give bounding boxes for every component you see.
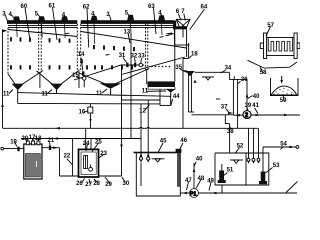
pump P1 xyxy=(190,189,199,198)
leader 48 xyxy=(196,180,201,189)
nozzle valve tick 2 xyxy=(134,63,136,67)
leader 4b xyxy=(64,16,67,19)
leader 13 xyxy=(128,33,130,43)
overflow pipe 36 xyxy=(237,79,239,128)
svg-text:37: 37 xyxy=(221,104,228,110)
svg-text:14: 14 xyxy=(78,52,85,58)
divider valve tick 14 xyxy=(82,71,84,76)
drop arrow on pipe 16 xyxy=(89,119,91,123)
hopper divider drop 3 xyxy=(146,70,148,84)
sludge pile xyxy=(271,86,297,95)
pipe35 inlet triangle xyxy=(186,71,195,76)
submersible pump 51 xyxy=(218,164,226,183)
leader 62 xyxy=(87,9,89,48)
leader 60 xyxy=(25,8,30,40)
leader 26 xyxy=(82,179,85,183)
leader 4d xyxy=(160,14,163,18)
svg-text:40: 40 xyxy=(253,94,260,100)
leader 27 xyxy=(89,179,90,184)
long recycle line L1 xyxy=(3,126,259,129)
divider wall 2 (double dashed) xyxy=(76,24,78,71)
inlet line xyxy=(4,148,24,150)
dryer left plate xyxy=(264,33,267,59)
svg-text:16: 16 xyxy=(79,110,86,116)
box17 top fitting 2 xyxy=(32,141,35,145)
manifold stub down at first hopper xyxy=(17,93,19,104)
branch into tank34 xyxy=(183,70,187,72)
svg-text:24: 24 xyxy=(83,141,90,147)
box23 feed pipe 2 xyxy=(90,139,92,150)
leader 53 xyxy=(266,168,273,174)
suction arrow into tank45 xyxy=(182,192,187,195)
bottom transfer line xyxy=(60,175,122,177)
downcomer pipe 35 (double) xyxy=(188,73,190,113)
svg-text:35: 35 xyxy=(175,65,182,71)
svg-text:57: 57 xyxy=(267,23,274,29)
box23 feed pipe 1 xyxy=(85,128,87,149)
mount trapezoid 4 xyxy=(91,16,98,21)
box 17 outer xyxy=(24,144,42,179)
mount trapezoid 6 xyxy=(158,15,165,20)
sludge bin 59 xyxy=(271,78,299,96)
ripple dash on water line xyxy=(66,32,70,34)
svg-text:31: 31 xyxy=(119,53,126,59)
tank63 right wall xyxy=(186,29,188,45)
leader 11b xyxy=(48,90,53,94)
tank52 bottom stub to P1 line xyxy=(221,185,223,193)
dryer right plate xyxy=(294,33,297,59)
svg-text:36: 36 xyxy=(241,77,248,83)
box23 inner wall xyxy=(81,152,96,175)
pipe from tank63 down (double) xyxy=(186,45,188,57)
svg-text:52: 52 xyxy=(237,143,244,149)
leader 46 xyxy=(180,143,183,149)
electrode dash row lower xyxy=(11,65,132,69)
leader 40r xyxy=(248,96,253,99)
leader 11c xyxy=(102,89,107,93)
leader 30 xyxy=(122,177,126,183)
svg-text:38: 38 xyxy=(227,129,234,135)
mount trapezoid 5 xyxy=(127,15,134,21)
leader 32 xyxy=(134,58,137,63)
tank52 water level xyxy=(230,159,243,161)
leader 45 xyxy=(158,143,163,153)
leader 15 xyxy=(77,77,83,78)
divider wall 1 (double dashed) xyxy=(38,24,40,73)
leader 4a xyxy=(12,15,16,19)
box23 small circle xyxy=(89,167,93,171)
main block right wall xyxy=(174,24,176,82)
svg-text:25: 25 xyxy=(95,139,102,145)
svg-text:39: 39 xyxy=(245,103,252,109)
inclined line right part xyxy=(122,57,186,75)
hopper V3 xyxy=(79,69,150,87)
riser up arrow 40 xyxy=(246,93,249,98)
leader 64 xyxy=(190,9,205,30)
svg-text:30: 30 xyxy=(123,181,130,187)
leader 44 xyxy=(171,99,173,105)
floor slab under bar xyxy=(148,87,175,89)
leader 20 xyxy=(26,139,28,142)
hopper divider drop 1 xyxy=(39,73,41,89)
tank34 bottom outlet drop xyxy=(225,115,229,124)
sludge manifold line B xyxy=(18,102,160,105)
svg-text:47: 47 xyxy=(185,178,192,184)
leader 24 xyxy=(86,144,88,151)
riser up arrow xyxy=(1,103,4,107)
sludge cone valve 4 xyxy=(166,89,175,92)
svg-text:23: 23 xyxy=(100,151,107,157)
svg-text:51: 51 xyxy=(227,168,234,174)
svg-text:46: 46 xyxy=(180,138,187,144)
divider wall 3 (double dashed) xyxy=(145,24,147,70)
leader 14 xyxy=(81,58,83,71)
leader 58 xyxy=(260,67,263,74)
fitting tick marks xyxy=(27,139,29,141)
svg-text:34: 34 xyxy=(225,66,232,72)
long inclined scraper line xyxy=(74,65,122,80)
leader 28 xyxy=(94,179,98,183)
leader 21 xyxy=(49,143,52,146)
mount trapezoid 3 xyxy=(61,16,68,20)
leader 33 xyxy=(140,58,143,63)
L1 left flow arrow xyxy=(55,127,61,130)
dryer serpentine xyxy=(268,38,292,52)
dosing drops into tank52 xyxy=(247,128,260,163)
scum transfer arrow xyxy=(167,33,175,35)
box 23 outer xyxy=(79,149,99,177)
leader 25 xyxy=(92,143,99,152)
pump2 discharge line right xyxy=(251,114,300,116)
launder line 1 xyxy=(8,24,77,26)
leader 63 xyxy=(154,8,157,34)
valve 16 body xyxy=(88,107,93,113)
leader 36 xyxy=(238,81,240,83)
dosing drop 2 xyxy=(147,100,149,156)
svg-text:28: 28 xyxy=(93,181,100,187)
P1 discharge line right xyxy=(198,192,297,194)
tank34 water level xyxy=(202,76,214,78)
down arrow on dosing pipe xyxy=(120,145,123,149)
discharge arrow 2 xyxy=(284,114,289,117)
top cover bar unit2 xyxy=(81,20,174,24)
small dash inside tank34 xyxy=(216,98,220,100)
tank45 top thick edge xyxy=(134,152,182,154)
nozzle end circle xyxy=(139,63,142,66)
tank63 roof bar xyxy=(173,26,187,29)
svg-text:11: 11 xyxy=(42,91,49,97)
discharge chute 58 xyxy=(248,60,298,68)
outlet arrow xyxy=(53,146,58,149)
line54 end circle xyxy=(296,146,299,149)
svg-text:19: 19 xyxy=(10,139,17,145)
mount trapezoid 2 xyxy=(38,16,45,20)
svg-text:53: 53 xyxy=(273,163,280,169)
mount stems into tank xyxy=(17,24,163,44)
pump2 riser xyxy=(246,79,248,110)
leader 52 xyxy=(235,148,240,154)
top cover bar xyxy=(7,20,77,24)
leader 11a xyxy=(9,90,13,94)
drop1 dip pipe xyxy=(140,163,142,186)
tank45 walls xyxy=(136,153,180,196)
svg-text:63: 63 xyxy=(148,4,155,10)
dryer left nub xyxy=(260,43,263,49)
sludge bar bottom of right section xyxy=(148,81,176,87)
leader 57 xyxy=(266,27,271,37)
overflow top line xyxy=(238,78,247,80)
nozzle line 31-33 assembly xyxy=(122,64,145,66)
manifold upper branch xyxy=(122,99,161,101)
leader 38 xyxy=(230,127,231,130)
svg-text:20: 20 xyxy=(22,136,29,142)
svg-text:54: 54 xyxy=(280,142,287,148)
svg-text:15: 15 xyxy=(72,73,79,79)
electrode dash row upper xyxy=(11,37,134,51)
outlet arrow 37 inside tank xyxy=(228,112,233,115)
leader 59 xyxy=(283,94,284,102)
tank34 walls xyxy=(191,72,233,115)
sludge cone valve 1 xyxy=(12,84,24,91)
leader 16 xyxy=(84,111,88,113)
treated water line 54 xyxy=(262,147,264,172)
svg-text:18: 18 xyxy=(35,136,42,142)
leader 34 xyxy=(221,70,226,73)
svg-text:44: 44 xyxy=(173,94,180,100)
svg-text:64: 64 xyxy=(201,5,208,11)
submersible pump 53 xyxy=(259,172,267,185)
divider nozzle circle 15 xyxy=(82,77,86,81)
svg-text:21: 21 xyxy=(48,138,55,144)
raw inlet circle xyxy=(1,147,4,150)
svg-text:22: 22 xyxy=(64,154,71,160)
sloped water line 13 xyxy=(9,30,78,37)
leader 11d xyxy=(147,90,166,92)
pump2 suction line xyxy=(233,114,243,116)
svg-text:18: 18 xyxy=(191,51,198,57)
sludge cone valve 3 (wide) xyxy=(100,83,122,89)
leader 17 xyxy=(31,139,34,142)
dryer body frame xyxy=(267,38,294,56)
leader 6 xyxy=(178,14,181,21)
P1 riser xyxy=(193,163,195,189)
tank34 rim step xyxy=(230,73,238,80)
tank45 water level xyxy=(152,158,165,160)
leader 40b xyxy=(194,162,196,168)
svg-text:48: 48 xyxy=(198,176,205,182)
valve 16 drop pipe xyxy=(90,104,92,129)
svg-text:11: 11 xyxy=(142,88,149,94)
hopper V2 xyxy=(37,70,80,88)
leader 51 xyxy=(223,173,228,177)
leader 18t xyxy=(189,56,192,59)
leader 7 xyxy=(184,14,186,21)
leader 39 xyxy=(246,108,248,111)
tank left wall dashed xyxy=(7,28,9,74)
dosing vertical pipe x121.5 xyxy=(121,65,123,176)
diffuser pipe 46 xyxy=(177,153,180,187)
leader 18b xyxy=(38,139,40,142)
drain pipe to tank52 top xyxy=(229,124,231,153)
leader 49 xyxy=(209,182,211,191)
box17 top fitting 3 xyxy=(37,141,40,145)
box23 inner unit xyxy=(84,156,88,169)
leader 47 xyxy=(187,182,189,191)
tank52 box xyxy=(215,153,269,185)
roof step connector xyxy=(173,21,176,30)
discharge arrow 1 xyxy=(256,114,261,117)
svg-text:61: 61 xyxy=(49,4,56,10)
P1 suction line xyxy=(180,192,189,194)
svg-text:13: 13 xyxy=(124,30,131,36)
bottom right diagonal xyxy=(286,182,298,193)
drop arrow into bin xyxy=(281,76,283,81)
sludge manifold line A (sloped) xyxy=(18,93,171,97)
L2 left flow arrow xyxy=(53,137,59,140)
svg-text:58: 58 xyxy=(260,70,267,76)
pipe35 droplet xyxy=(194,80,197,83)
hopper divider drop 2 xyxy=(78,71,80,88)
mount trapezoid 1 xyxy=(13,16,20,20)
rim fitting tick xyxy=(233,76,235,79)
riser pipe far left xyxy=(2,31,4,128)
leader 41 xyxy=(255,108,258,114)
leader 22 xyxy=(67,159,72,165)
leader 23 xyxy=(99,154,105,158)
ripple dashes in right section xyxy=(160,36,164,39)
diffuser cap xyxy=(176,149,182,153)
svg-text:33: 33 xyxy=(138,54,145,60)
leader 5b xyxy=(128,14,131,18)
leader 37 xyxy=(226,109,229,113)
svg-text:P1: P1 xyxy=(190,191,197,197)
leader 35 xyxy=(180,69,187,72)
line54 flow arrow xyxy=(290,146,295,149)
pipe 22 from dosing line down xyxy=(72,139,74,177)
leader 61 xyxy=(53,8,58,41)
svg-text:11: 11 xyxy=(96,91,103,97)
box17 top fitting 1 xyxy=(26,141,29,145)
riser inlet arrow into tank xyxy=(2,29,8,32)
svg-text:11: 11 xyxy=(3,91,10,97)
extra dash mid xyxy=(106,54,110,56)
outlet valve tick 21 xyxy=(49,145,51,150)
hopper V1 xyxy=(8,71,43,88)
suction arrow xyxy=(235,114,240,117)
dosing pipe riser x131 xyxy=(130,34,132,139)
leader 5a xyxy=(38,15,41,19)
box17 outlet line xyxy=(42,147,60,149)
svg-text:40: 40 xyxy=(196,157,203,163)
svg-text:49: 49 xyxy=(207,178,214,184)
elbow to riser xyxy=(160,104,171,106)
launder line 2 xyxy=(8,27,77,29)
svg-text:27: 27 xyxy=(85,182,92,188)
svg-text:62: 62 xyxy=(83,4,90,10)
leader 29 xyxy=(105,177,110,184)
leader 4c xyxy=(93,15,96,19)
svg-text:12: 12 xyxy=(139,109,146,115)
sloped water line unit2 xyxy=(81,32,187,49)
leader 12 xyxy=(145,105,150,111)
nozzle valve tick 1 xyxy=(126,63,128,67)
long dosing line L2 xyxy=(21,138,141,140)
tank63 inner wall lines xyxy=(174,29,176,45)
svg-text:26: 26 xyxy=(76,181,83,187)
leader 3b xyxy=(110,15,112,21)
svg-text:29: 29 xyxy=(105,182,112,188)
leader 31 xyxy=(123,58,127,64)
dosing drop 1 xyxy=(140,104,142,156)
elbow left xyxy=(183,58,189,60)
svg-text:59: 59 xyxy=(280,98,287,104)
sludge cone valve 2 xyxy=(50,84,62,91)
svg-text:45: 45 xyxy=(160,139,167,145)
leader 54 xyxy=(281,146,284,149)
drain drop to recycle line xyxy=(182,59,184,129)
dotted row right section xyxy=(151,66,170,68)
arrow on P1 line xyxy=(211,192,217,195)
leader 3 xyxy=(5,15,8,22)
dryer right nub xyxy=(297,43,300,49)
agitator device 6/7 on tank63 xyxy=(176,19,190,28)
svg-text:41: 41 xyxy=(252,103,259,109)
leader 19 xyxy=(15,142,18,147)
drop pipe from box17 outlet xyxy=(59,148,61,176)
svg-text:32: 32 xyxy=(131,54,138,60)
pump 2 circle xyxy=(243,111,251,119)
riser arrow up xyxy=(193,168,196,173)
inlet valve tick xyxy=(17,147,19,152)
box 17 media fill xyxy=(25,154,40,178)
tank52 inner wall xyxy=(245,153,247,185)
svg-text:60: 60 xyxy=(21,4,28,10)
